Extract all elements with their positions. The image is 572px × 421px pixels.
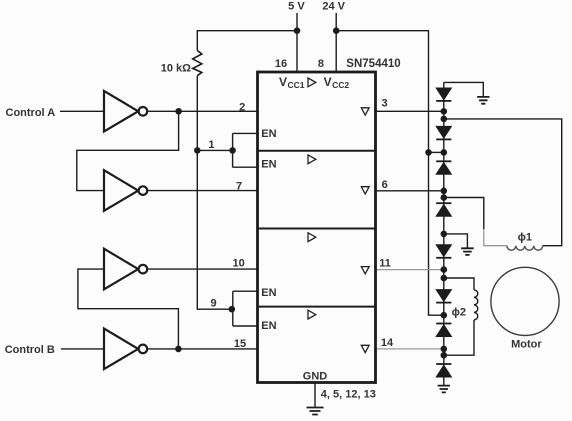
wire rail to column link [429,151,444,153]
diode D8 (up) [436,363,451,365]
svg-text:CC2: CC2 [332,80,349,90]
output nabla section4 [361,345,369,352]
wire Control A input [60,110,104,112]
junction pin3 column [441,108,448,115]
svg-text:EN: EN [261,320,276,332]
ground G3 middle [461,248,474,255]
wire inverter1 output to pin 2 [147,110,258,112]
svg-text:Control A: Control A [6,107,56,119]
diode D2 (down) [436,126,451,138]
wire GND pin stub [314,383,316,408]
wire 5V drop to pin 16 [296,13,298,72]
inductor phi1 coil [507,246,543,250]
svg-text:3: 3 [382,98,388,110]
svg-text:24 V: 24 V [322,1,345,13]
output nabla section3 [361,267,369,274]
wire pin 11 to diode column (gray) [375,269,444,271]
junction phase2 bottom [441,352,448,359]
wire inverter3 output to pin 10 [147,268,258,270]
wire feedback inv4 output to inv3 input [78,269,178,349]
inverter U2B [104,170,138,211]
junction phase1 right [441,116,448,123]
svg-text:EN: EN [261,287,276,299]
junction pin1 bracket [229,147,236,154]
junction pin9 bracket [229,306,236,313]
junction inv1 output [175,108,182,115]
junction 24V rail [333,27,340,34]
junction 5V rail [294,27,301,34]
junction pin1 resistor [194,147,201,154]
svg-text:ϕ1: ϕ1 [518,232,532,244]
wire pin 9 bracket [233,291,258,326]
inverter U2C [104,249,138,290]
wire inverter2 output to pin 7 [147,190,258,192]
junction phase2 top [441,275,448,282]
wire phase1 right lead [444,119,562,246]
svg-text:10 kΩ: 10 kΩ [161,63,191,75]
svg-text:V: V [279,75,287,89]
svg-text:6: 6 [382,179,388,191]
svg-text:4, 5, 12, 13: 4, 5, 12, 13 [321,389,376,401]
wire inverter4 output to pin 15 [147,348,258,350]
diode D3 (up) [436,160,451,162]
wire feedback inv1 output to inv2 input [77,111,179,190]
svg-text:1: 1 [208,139,214,151]
svg-text:SN754410: SN754410 [346,58,400,70]
junction pin11 column [441,266,448,273]
IC section dividers [258,151,376,307]
wire Control B input [61,348,104,350]
inverter U2A (Control A) [104,91,138,132]
wire pin 3 to diode column [375,110,444,112]
junction ground G3 [441,231,448,238]
junction rail link left [425,149,432,156]
diode D5 (down) [436,245,451,257]
svg-text:V: V [324,75,332,89]
motor circle [491,267,559,335]
wire pin 6 to diode column [375,190,444,192]
wire ground G3 stub [444,234,468,248]
svg-text:CC1: CC1 [288,80,305,90]
svg-text:EN: EN [261,158,276,170]
junction rail bottom [441,312,448,319]
driver triangle symbol section1 [308,78,316,87]
diode D7 (up) [436,323,451,325]
svg-text:5 V: 5 V [288,1,305,13]
wire phase1 left lead upper [444,198,484,230]
driver triangle symbol section4 [308,310,316,319]
wire diode column vertical [443,82,445,385]
junction inv4 output [175,346,182,353]
svg-text:ϕ2: ϕ2 [452,307,466,319]
wire phase2 top lead [444,278,474,290]
svg-text:2: 2 [239,101,245,113]
svg-text:16: 16 [275,58,287,70]
inverter U2D (Control B) [104,329,138,370]
diode D4 (up) [436,202,451,204]
ground G2 top right [477,97,489,104]
junction pin14 column [441,346,448,353]
wire column top to ground G2 [444,82,484,97]
wire resistor bottom down to pin 9 row [197,76,232,310]
wire pin 14 to diode column (gray) [375,348,444,350]
junction phase1 left [441,194,448,201]
inductor phi2 coil [474,290,478,320]
wire pin 1 net [197,149,232,151]
svg-text:10: 10 [232,258,244,270]
driver triangle symbol section2 [308,155,316,164]
svg-text:14: 14 [381,337,394,349]
svg-text:GND: GND [303,370,328,382]
svg-text:11: 11 [379,258,391,270]
svg-text:Motor: Motor [511,339,542,351]
diode D1 (down) [436,88,451,100]
op IC U1 SN754410 box [258,72,376,383]
svg-text:8: 8 [318,58,324,70]
output nabla section1 [361,108,369,115]
driver triangle symbol section3 [308,233,316,242]
wire 24V drop to pin 8 [335,13,337,72]
wire 24V rail right and down to diode column [336,31,444,316]
wire phase2 bottom lead [444,320,474,355]
wire 5V rail to resistor [197,31,297,51]
output nabla section2 [361,187,369,194]
svg-text:15: 15 [234,338,246,350]
ground G4 bottom [438,386,450,393]
svg-text:9: 9 [210,297,216,309]
diode D6 (down) [436,290,451,302]
wire phase1 left lead lower (gray) [484,229,507,246]
resistor R1 10k zigzag [193,51,202,76]
wire pin 1 bracket [233,133,258,167]
svg-text:Control B: Control B [5,344,55,356]
svg-text:7: 7 [236,180,242,192]
ground IC GND [307,408,324,415]
junction pin6 column [441,188,448,195]
junction rail link right [441,149,448,156]
svg-text:EN: EN [261,128,276,140]
